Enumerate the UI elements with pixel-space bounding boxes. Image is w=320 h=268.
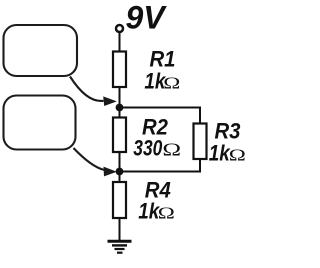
wire R2 to R4 <box>119 152 121 183</box>
svg-text:330: 330 <box>133 136 163 161</box>
svg-text:Ω: Ω <box>229 146 246 165</box>
ground <box>108 241 132 252</box>
node B junction dot <box>116 168 124 176</box>
wire R1 to R2 <box>119 87 121 118</box>
callout box 1 <box>4 25 78 76</box>
arrow from box 2 to node B <box>74 148 105 170</box>
wire terminal to R1 <box>119 32 121 52</box>
9V supply terminal <box>116 25 123 32</box>
resistor R3 <box>194 124 207 160</box>
svg-text:9V: 9V <box>126 0 168 35</box>
resistor R1 <box>113 52 126 88</box>
resistor R2 <box>113 118 126 153</box>
callout box 2 <box>4 96 76 150</box>
wire R3 bottom to node B <box>120 159 201 172</box>
svg-text:Ω: Ω <box>163 74 180 93</box>
svg-text:Ω: Ω <box>162 139 181 160</box>
svg-text:Ω: Ω <box>158 204 175 223</box>
wire node A to R3 branch <box>120 108 201 125</box>
arrow from box 1 to node A <box>70 77 104 101</box>
resistor R4 <box>113 182 126 218</box>
node A junction dot <box>116 104 124 112</box>
wire R4 to ground <box>119 218 121 241</box>
